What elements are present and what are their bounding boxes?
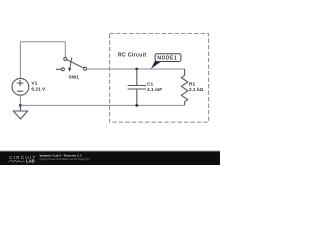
svg-text:2.1 mF: 2.1 mF [147, 87, 162, 93]
wire V1 bottom [19, 95, 21, 105]
ground [13, 105, 27, 119]
resistor R1 [181, 69, 187, 105]
switch SW1 [56, 57, 87, 70]
capacitor C1 [128, 69, 146, 105]
node label NODE1 [151, 54, 181, 69]
wire bottom ground to C1 [20, 104, 136, 106]
wire switch to C1 [87, 68, 137, 70]
dashed subcircuit box [110, 34, 209, 123]
svg-text:LAB: LAB [26, 159, 35, 164]
svg-text:6.21 V: 6.21 V [31, 86, 46, 92]
junction dot at C1 bottom [135, 104, 138, 107]
voltage source V1 [12, 78, 29, 95]
footer bar [0, 150, 220, 153]
switch actuation arrow [68, 57, 72, 71]
wire C1 to R1 [137, 68, 185, 70]
wire top horizontal [20, 41, 65, 43]
svg-text:C1: C1 [147, 82, 153, 88]
junction dot at C1 top [135, 68, 138, 71]
svg-text:https://www.circuitlab.com/c/7: https://www.circuitlab.com/c/7ea3j73c [40, 157, 90, 161]
wire V1 top to corner [19, 42, 21, 79]
wire down into switch [64, 42, 66, 58]
svg-text:NODE1: NODE1 [157, 56, 177, 62]
svg-text:SW1: SW1 [69, 74, 80, 80]
svg-text:RC Circuit: RC Circuit [118, 53, 146, 59]
junction dot at V1/ground [19, 104, 22, 107]
svg-text:R1: R1 [189, 82, 195, 88]
wire bottom C1 to R1 [137, 104, 185, 106]
svg-text:V1: V1 [31, 81, 37, 87]
svg-text:2.1 kΩ: 2.1 kΩ [189, 87, 204, 93]
